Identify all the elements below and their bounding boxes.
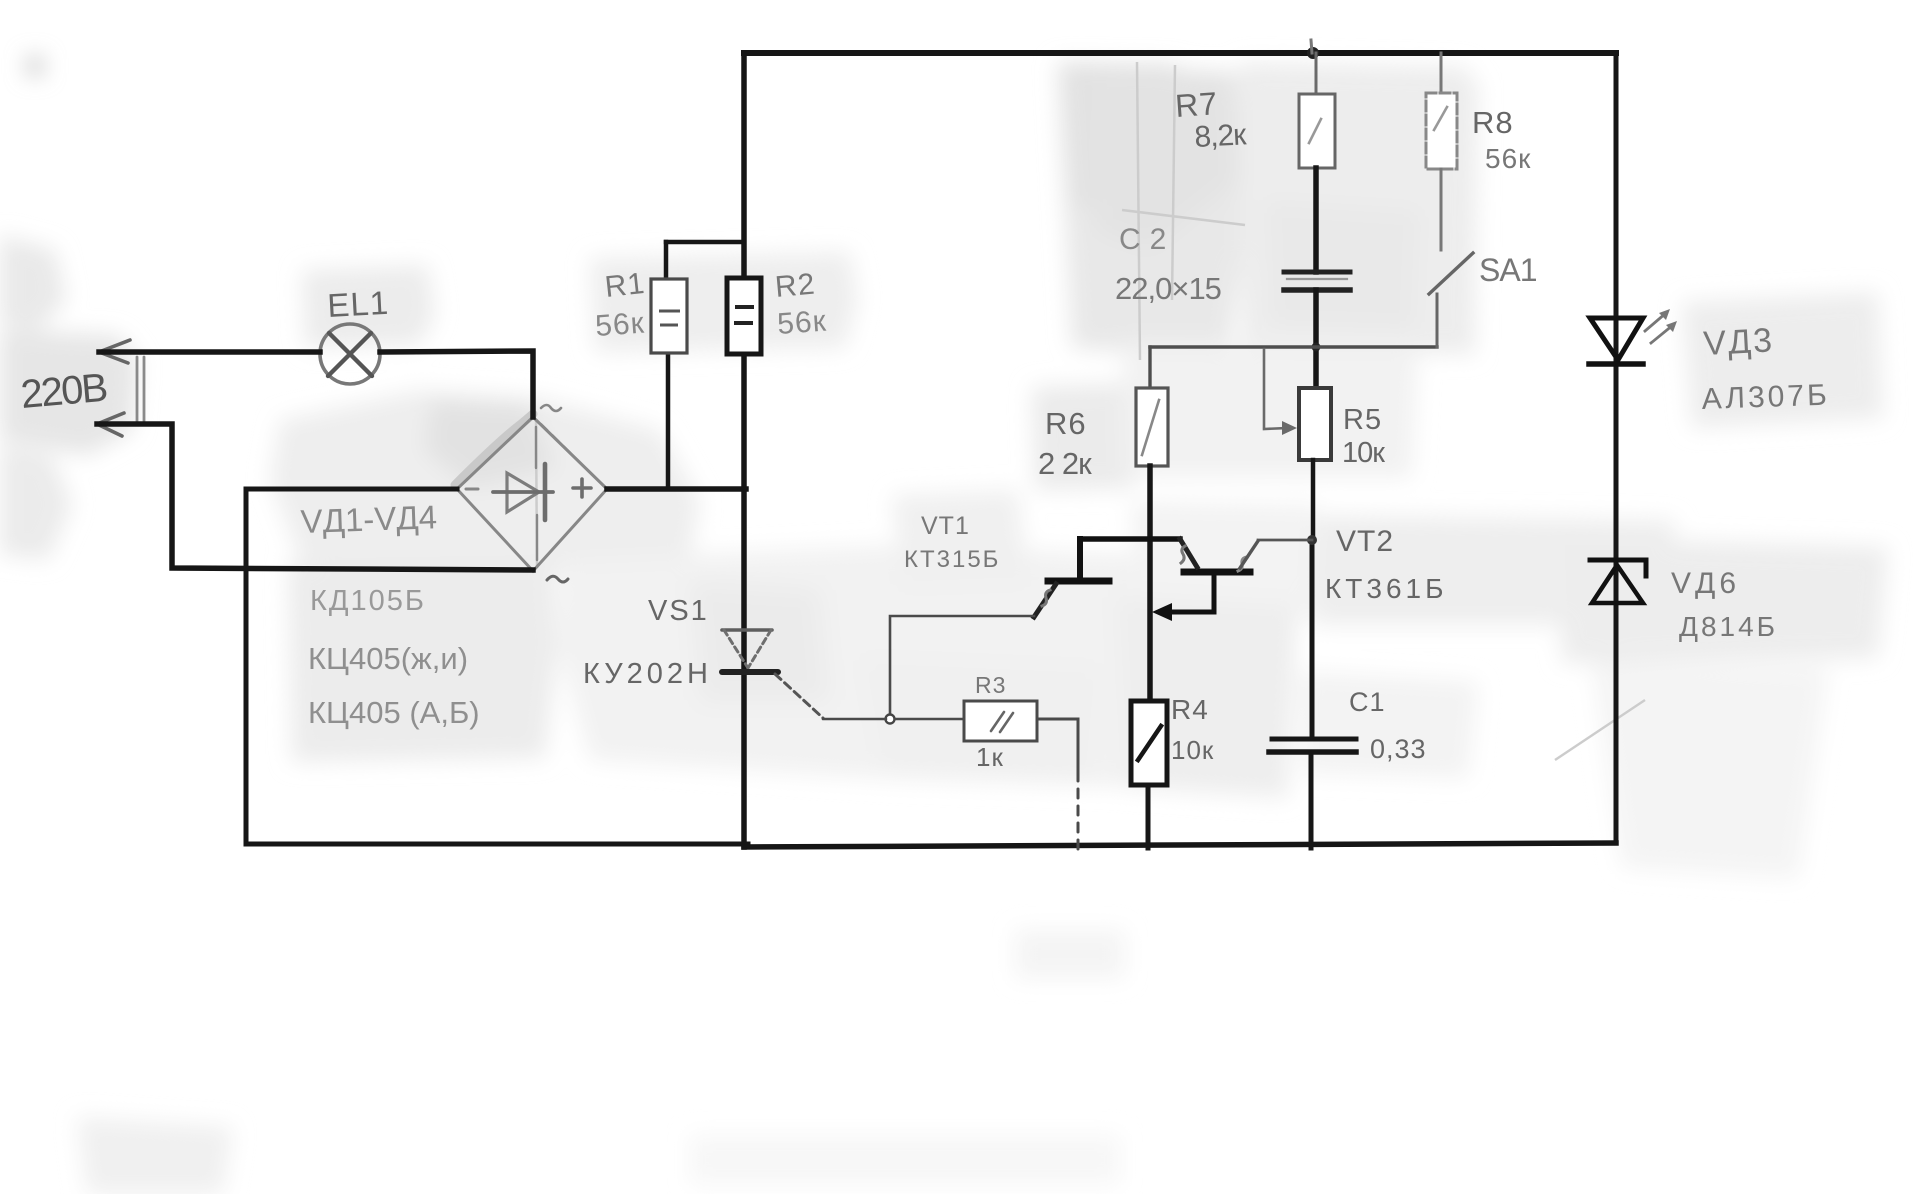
svg-text:Д814Б: Д814Б bbox=[1679, 611, 1778, 642]
svg-text:С1: С1 bbox=[1349, 687, 1386, 717]
svg-text:10к: 10к bbox=[1342, 437, 1385, 469]
svg-text:VS1: VS1 bbox=[648, 595, 709, 627]
svg-text:EL1: EL1 bbox=[326, 284, 390, 324]
svg-text:R8: R8 bbox=[1472, 105, 1514, 140]
svg-text:0,33: 0,33 bbox=[1370, 734, 1427, 764]
svg-text:R5: R5 bbox=[1343, 404, 1382, 436]
svg-text:56к: 56к bbox=[1485, 143, 1531, 174]
svg-text:VT2: VT2 bbox=[1336, 525, 1394, 558]
svg-text:R3: R3 bbox=[975, 672, 1006, 698]
svg-text:R7: R7 bbox=[1174, 85, 1219, 124]
svg-text:SA1: SA1 bbox=[1479, 252, 1537, 288]
svg-text:КТ315Б: КТ315Б bbox=[904, 546, 1000, 573]
svg-text:R4: R4 bbox=[1171, 694, 1209, 725]
svg-text:R1: R1 bbox=[603, 267, 647, 304]
svg-text:R2: R2 bbox=[774, 268, 817, 304]
svg-text:КЦ405 (А,Б): КЦ405 (А,Б) bbox=[308, 695, 480, 730]
svg-text:КУ202Н: КУ202Н bbox=[583, 658, 712, 690]
svg-text:КТ361Б: КТ361Б bbox=[1325, 573, 1448, 604]
svg-text:56к: 56к bbox=[594, 307, 646, 343]
svg-text:АЛ307Б: АЛ307Б bbox=[1701, 379, 1830, 416]
svg-text:С2: С2 bbox=[1119, 223, 1175, 256]
svg-text:VT1: VT1 bbox=[921, 512, 970, 540]
svg-text:10к: 10к bbox=[1171, 735, 1214, 765]
svg-text:2 2к: 2 2к bbox=[1038, 446, 1092, 481]
svg-text:R6: R6 bbox=[1045, 406, 1087, 441]
svg-text:КЦ405(ж,и): КЦ405(ж,и) bbox=[308, 641, 468, 676]
svg-text:8,2к: 8,2к bbox=[1194, 118, 1248, 154]
svg-text:VД3: VД3 bbox=[1702, 321, 1775, 363]
svg-text:22,0×15: 22,0×15 bbox=[1115, 271, 1221, 306]
svg-text:VД6: VД6 bbox=[1671, 567, 1740, 600]
svg-text:VД1-VД4: VД1-VД4 bbox=[300, 498, 438, 540]
svg-text:56к: 56к bbox=[776, 305, 828, 341]
svg-text:220В: 220В bbox=[19, 366, 108, 417]
svg-text:КД105Б: КД105Б bbox=[310, 585, 426, 617]
svg-text:1к: 1к bbox=[976, 742, 1004, 772]
